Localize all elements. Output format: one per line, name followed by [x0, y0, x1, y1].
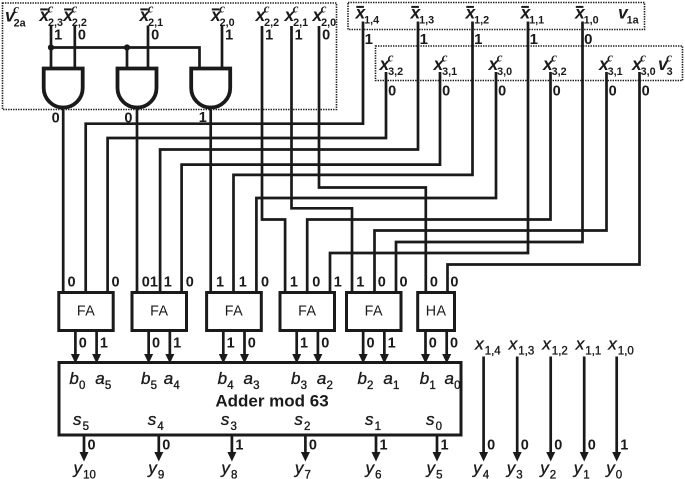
svg-text:3,2: 3,2 [552, 66, 567, 78]
wire x1,2 passthrough [549, 357, 552, 457]
svg-text:c: c [388, 50, 394, 65]
label x2,3 inverted [38, 1, 63, 29]
label y4 output [472, 459, 490, 479]
wire adder output s2 [304, 435, 307, 457]
svg-text:1: 1 [375, 421, 381, 433]
wire net x1,3 to FA2 input b [160, 22, 418, 293]
pin label b0 on adder [69, 369, 85, 392]
arrowhead output s4 [154, 452, 163, 462]
svg-text:s: s [294, 410, 303, 429]
label v1a [618, 3, 640, 27]
wire FA4 output 0 to adder [295, 331, 298, 359]
svg-text:0: 0 [79, 380, 85, 392]
arrowhead HA output 1 [442, 354, 451, 364]
svg-text:1,1: 1,1 [529, 14, 544, 26]
svg-text:s: s [365, 410, 374, 429]
svg-text:1: 1 [380, 438, 388, 454]
svg-text:1: 1 [356, 275, 364, 291]
wire G2 left input drop [126, 48, 129, 69]
svg-text:0: 0 [52, 111, 60, 127]
svg-text:4: 4 [227, 380, 234, 392]
svg-text:x: x [541, 335, 551, 354]
svg-text:4: 4 [483, 469, 490, 479]
label y1 output [573, 459, 590, 479]
svg-text:1: 1 [164, 275, 172, 291]
wire x2,2 vertical into gate G1 [73, 26, 76, 69]
svg-text:2a: 2a [14, 17, 27, 29]
svg-text:1,3: 1,3 [419, 14, 434, 26]
arrowhead output s1 [372, 452, 381, 462]
svg-text:3: 3 [231, 421, 237, 433]
pin label b5 on adder [141, 369, 157, 392]
arrowhead FA4 output 0 [292, 354, 301, 364]
arrowhead HA output 0 [421, 354, 430, 364]
svg-text:HA: HA [426, 304, 447, 320]
svg-text:0: 0 [112, 275, 120, 291]
wire FA1 output 1 to adder [95, 331, 98, 359]
svg-text:0: 0 [450, 275, 458, 291]
wire shared x2,3 horizontal bus to G2 and G3 [51, 48, 200, 69]
label x1,3 passthrough [508, 335, 535, 358]
svg-text:0: 0 [162, 438, 170, 454]
svg-text:1: 1 [300, 336, 308, 352]
svg-text:1: 1 [100, 336, 108, 352]
label x1,4 inverted [355, 3, 380, 27]
pin label a1 on adder [383, 369, 399, 392]
svg-text:s: s [221, 410, 230, 429]
label x3,2 c (second) [542, 50, 567, 78]
label x1,0 passthrough [607, 335, 634, 358]
label y3 output [506, 459, 523, 479]
svg-text:s: s [426, 410, 435, 429]
svg-text:1,2: 1,2 [474, 14, 489, 26]
full adder FA5 [347, 293, 402, 331]
svg-text:FA: FA [225, 304, 243, 320]
svg-text:0: 0 [454, 380, 460, 392]
arrowhead FA2 output 0 [144, 354, 153, 364]
pin label s5 on adder [73, 410, 89, 433]
svg-text:0: 0 [366, 336, 374, 352]
svg-text:0: 0 [498, 84, 506, 100]
arrowhead FA2 output 1 [165, 354, 174, 364]
svg-text:y: y [220, 459, 231, 478]
svg-text:c: c [607, 50, 613, 65]
svg-text:0: 0 [388, 84, 396, 100]
wire HA output 0 to adder [424, 331, 427, 359]
svg-text:a: a [383, 369, 392, 388]
svg-text:0: 0 [322, 28, 330, 44]
wire G3 output to FA3 input a [209, 107, 212, 293]
svg-text:1: 1 [474, 31, 482, 48]
svg-text:1: 1 [54, 28, 62, 44]
svg-text:3: 3 [253, 380, 259, 392]
svg-text:0: 0 [378, 275, 386, 291]
svg-text:b: b [69, 369, 78, 388]
svg-text:c: c [48, 1, 54, 16]
svg-text:1: 1 [290, 275, 298, 291]
svg-text:c: c [551, 50, 557, 65]
svg-text:x: x [607, 335, 617, 354]
svg-text:9: 9 [158, 469, 164, 479]
Adder mod 63 block [59, 363, 461, 436]
wire FA3 output 1 to adder [243, 331, 246, 359]
svg-text:y: y [506, 459, 517, 478]
label x1,4 passthrough [474, 335, 501, 358]
pin label a4 on adder [164, 369, 181, 392]
arrowhead output s0 [433, 452, 442, 462]
svg-text:y: y [573, 459, 584, 478]
label x2,0 inverted [210, 1, 235, 29]
pin label b1 on adder [420, 369, 436, 392]
full adder FA2 [132, 293, 187, 331]
AND gate G1 [44, 69, 83, 108]
label v3 with superscript c [658, 50, 673, 78]
svg-text:c: c [148, 1, 154, 16]
label x3,1 c (first) [433, 50, 458, 78]
full adder FA4 [280, 293, 335, 331]
svg-text:a: a [95, 369, 104, 388]
dashed box v3 (right block) [376, 46, 683, 81]
svg-text:c: c [264, 1, 270, 16]
wire net x3,2a to FA1 input c [108, 72, 386, 293]
wire FA3 output 0 to adder [222, 331, 225, 359]
svg-text:FA: FA [150, 304, 168, 320]
half adder HA [418, 293, 455, 331]
svg-text:c: c [666, 50, 672, 65]
label y7 output [294, 459, 311, 479]
svg-text:x: x [575, 335, 585, 354]
svg-text:b: b [218, 369, 227, 388]
svg-text:0: 0 [309, 438, 317, 454]
svg-text:c: c [72, 1, 78, 16]
svg-text:4: 4 [173, 380, 180, 392]
svg-text:Adder mod 63: Adder mod 63 [215, 392, 328, 411]
svg-text:0: 0 [616, 469, 622, 479]
pin label s1 on adder [365, 410, 381, 433]
svg-text:y: y [73, 459, 84, 478]
svg-text:8: 8 [231, 469, 237, 479]
wire x1,4 passthrough [482, 357, 485, 457]
svg-text:FA: FA [298, 304, 316, 320]
arrowhead FA4 output 1 [313, 354, 322, 364]
arrowhead FA1 output 1 [92, 354, 101, 364]
label y6 output [365, 459, 382, 479]
wire net x1,2 to FA3 input b [234, 22, 473, 293]
wire net x3,1a to FA2 input c [182, 72, 440, 293]
wire adder output s5 [83, 435, 86, 457]
svg-text:b: b [291, 369, 300, 388]
svg-text:b: b [141, 369, 150, 388]
svg-text:1: 1 [620, 438, 628, 454]
svg-text:1: 1 [441, 438, 449, 454]
svg-text:0: 0 [321, 336, 329, 352]
pin label b3 on adder [291, 369, 307, 392]
svg-text:0: 0 [584, 31, 592, 48]
svg-text:s: s [148, 410, 157, 429]
wire FA2 output 1 to adder [169, 331, 172, 359]
full adder FA3 [207, 293, 262, 331]
svg-text:1: 1 [530, 31, 538, 48]
svg-text:0: 0 [152, 336, 160, 352]
label y2 output [539, 459, 556, 479]
svg-text:5: 5 [105, 380, 111, 392]
wire adder output s1 [375, 435, 378, 457]
label x1,0 inverted [574, 3, 599, 27]
arrowhead x1,4 passthrough [479, 452, 488, 462]
svg-text:0: 0 [400, 275, 408, 291]
label x3,2 c (first) [379, 50, 404, 78]
svg-text:c: c [13, 1, 19, 16]
wire HA output 1 to adder [445, 331, 448, 359]
svg-text:a: a [164, 369, 173, 388]
label x3,1 c (second) [598, 50, 623, 78]
wire x2,0 vertical into gate G3 [221, 26, 224, 69]
svg-text:0: 0 [642, 84, 650, 100]
pin label a2 on adder [317, 369, 333, 392]
arrowhead FA3 output 0 [219, 354, 228, 364]
svg-text:a: a [244, 369, 253, 388]
svg-text:1: 1 [239, 275, 247, 291]
svg-text:0: 0 [554, 438, 562, 454]
svg-text:5: 5 [151, 380, 157, 392]
svg-text:s: s [73, 410, 82, 429]
wire G1 output to FA1 input a [62, 107, 65, 293]
svg-text:0: 0 [248, 336, 256, 352]
svg-text:1: 1 [235, 438, 243, 454]
junction x2,3 bus at G1 [48, 44, 54, 50]
svg-text:1: 1 [334, 275, 342, 291]
svg-text:6: 6 [375, 469, 381, 479]
svg-text:c: c [219, 1, 225, 16]
svg-text:y: y [426, 459, 437, 478]
AND gate G2 [118, 69, 157, 108]
svg-text:1: 1 [365, 31, 373, 48]
svg-text:1: 1 [150, 275, 158, 291]
wire G2 output to FA2 input a [136, 107, 139, 293]
svg-text:1,1: 1,1 [585, 345, 601, 357]
svg-text:0: 0 [609, 84, 617, 100]
svg-text:1,2: 1,2 [552, 345, 568, 357]
label x2,0 c [312, 1, 337, 29]
svg-text:1,3: 1,3 [518, 345, 534, 357]
svg-text:0: 0 [142, 275, 150, 291]
svg-text:1: 1 [420, 31, 428, 48]
label x1,2 passthrough [541, 335, 568, 358]
svg-text:FA: FA [77, 304, 95, 320]
svg-text:5: 5 [436, 469, 442, 479]
svg-text:1: 1 [393, 380, 399, 392]
arrowhead FA3 output 1 [240, 354, 249, 364]
label x1,2 inverted [465, 3, 490, 27]
svg-text:2: 2 [550, 469, 556, 479]
svg-text:y: y [539, 459, 550, 478]
wire net x2,1 to FA5 input a [292, 26, 353, 293]
label x1,1 passthrough [575, 335, 602, 358]
svg-text:FA: FA [365, 304, 383, 320]
svg-text:0: 0 [261, 275, 269, 291]
wire adder output s3 [231, 435, 234, 457]
pin label s0 on adder [426, 410, 442, 433]
svg-text:0: 0 [553, 84, 561, 100]
svg-text:5: 5 [83, 421, 89, 433]
svg-text:2: 2 [304, 421, 310, 433]
svg-text:c: c [293, 1, 299, 16]
svg-text:2: 2 [367, 380, 373, 392]
svg-text:x: x [508, 335, 518, 354]
svg-text:c: c [321, 1, 327, 16]
svg-text:0: 0 [312, 275, 320, 291]
svg-text:c: c [640, 50, 646, 65]
svg-text:a: a [445, 369, 454, 388]
wire net x1,4 to FA1 input b [86, 22, 363, 293]
AND gate G3 [191, 69, 230, 108]
svg-text:1,4: 1,4 [485, 345, 502, 357]
arrowhead x1,2 passthrough [546, 452, 555, 462]
label y5 output [426, 459, 443, 479]
arrowhead x1,0 passthrough [612, 452, 621, 462]
svg-text:a: a [317, 369, 326, 388]
pin label s3 on adder [221, 410, 237, 433]
svg-text:10: 10 [83, 469, 96, 479]
wire net x3,2b to FA4 input b [307, 72, 550, 293]
svg-text:0: 0 [79, 336, 87, 352]
svg-text:1: 1 [216, 275, 224, 291]
arrowhead FA5 output 0 [359, 354, 368, 364]
svg-text:c: c [497, 50, 503, 65]
wire x2,1 vertical into gate G2 [147, 26, 150, 69]
wire net x3,0b to HA input b [448, 72, 640, 293]
svg-text:7: 7 [305, 469, 311, 479]
arrowhead FA1 output 0 [71, 354, 80, 364]
svg-text:3,1: 3,1 [442, 66, 457, 78]
label v2a with superscript c [5, 1, 27, 29]
svg-text:0: 0 [450, 336, 458, 352]
arrowhead output s2 [301, 452, 310, 462]
pin label s4 on adder [148, 410, 165, 433]
svg-text:1: 1 [265, 28, 273, 44]
pin label a3 on adder [244, 369, 260, 392]
svg-text:0: 0 [68, 275, 76, 291]
label x3,0 c (first) [488, 50, 513, 78]
svg-text:1: 1 [295, 28, 303, 44]
label x1,3 inverted [410, 3, 435, 27]
svg-text:c: c [442, 50, 448, 65]
junction x2,3 bus at G2 [124, 44, 130, 50]
svg-text:3,1: 3,1 [608, 66, 623, 78]
full adder FA1 [59, 293, 113, 331]
label x2,2 inverted [62, 1, 87, 29]
svg-text:3: 3 [301, 380, 307, 392]
svg-text:b: b [357, 369, 366, 388]
wire FA1 output 0 to adder [74, 331, 77, 359]
svg-text:1,4: 1,4 [364, 14, 379, 26]
svg-text:3: 3 [667, 66, 673, 78]
svg-text:0: 0 [487, 438, 495, 454]
svg-text:y: y [294, 459, 305, 478]
wire adder output s0 [436, 435, 439, 457]
wire net x1,0 to FA5 input c [396, 22, 583, 293]
label y0 output [605, 459, 622, 479]
svg-text:0: 0 [521, 438, 529, 454]
svg-text:1: 1 [388, 336, 396, 352]
wire net x1,1 to FA4 input c [330, 22, 528, 293]
wire FA5 output 0 to adder [362, 331, 365, 359]
svg-text:x: x [474, 335, 484, 354]
svg-text:0: 0 [151, 28, 159, 44]
svg-text:y: y [365, 459, 376, 478]
label x2,2 c [255, 1, 280, 29]
svg-text:0: 0 [78, 28, 86, 44]
label y10 output [73, 459, 96, 479]
wire adder output s4 [157, 435, 160, 457]
svg-text:0: 0 [436, 421, 442, 433]
arrowhead x1,3 passthrough [513, 452, 522, 462]
arrowhead FA5 output 1 [380, 354, 389, 364]
svg-text:y: y [605, 459, 616, 478]
pin label s2 on adder [294, 410, 310, 433]
dashed box v2a (top-left block) [3, 3, 337, 110]
svg-text:1: 1 [583, 469, 589, 479]
svg-text:y: y [472, 459, 483, 478]
wire net x3,1b to FA5 input b [375, 72, 607, 293]
svg-text:0: 0 [429, 336, 437, 352]
svg-text:y: y [147, 459, 158, 478]
pin label a0 on adder [445, 369, 461, 392]
svg-text:1: 1 [173, 336, 181, 352]
svg-text:1: 1 [429, 380, 435, 392]
wire x1,0 passthrough [615, 357, 618, 457]
svg-text:1: 1 [225, 28, 233, 44]
arrowhead x1,1 passthrough [580, 452, 589, 462]
label x2,1 c [284, 1, 309, 29]
svg-text:3,0: 3,0 [497, 66, 512, 78]
svg-text:0: 0 [430, 275, 438, 291]
wire FA5 output 1 to adder [383, 331, 386, 359]
svg-text:1,0: 1,0 [584, 14, 599, 26]
pin label a5 on adder [95, 369, 111, 392]
arrowhead output s3 [227, 452, 236, 462]
wire FA4 output 1 to adder [317, 331, 320, 359]
pin label b4 on adder [218, 369, 235, 392]
svg-text:0: 0 [442, 84, 450, 100]
wire x1,1 passthrough [583, 357, 586, 457]
wire x2,3 vertical into gate G1 [50, 26, 53, 69]
label y8 output [220, 459, 237, 479]
svg-text:0: 0 [186, 275, 194, 291]
svg-text:3: 3 [516, 469, 522, 479]
svg-text:1a: 1a [627, 14, 640, 26]
svg-text:0: 0 [88, 438, 96, 454]
svg-text:1: 1 [227, 336, 235, 352]
dashed box v1a (top-right block) [348, 3, 645, 30]
svg-text:2: 2 [327, 380, 333, 392]
wire net x3,0a to FA3 input c [256, 72, 496, 293]
label x2,1 inverted [139, 1, 164, 29]
wire x1,3 passthrough [516, 357, 519, 457]
svg-text:0: 0 [588, 438, 596, 454]
pin label b2 on adder [357, 369, 373, 392]
wire net x2,0 to HA input a [319, 26, 426, 293]
arrowhead output s5 [80, 452, 89, 462]
svg-text:3,2: 3,2 [388, 66, 403, 78]
label x3,0 c (second) [631, 50, 656, 78]
svg-text:1,0: 1,0 [618, 345, 634, 357]
label y9 output [147, 459, 164, 479]
svg-text:4: 4 [157, 421, 164, 433]
svg-text:b: b [420, 369, 429, 388]
svg-text:3,0: 3,0 [641, 66, 656, 78]
wire FA2 output 0 to adder [147, 331, 150, 359]
